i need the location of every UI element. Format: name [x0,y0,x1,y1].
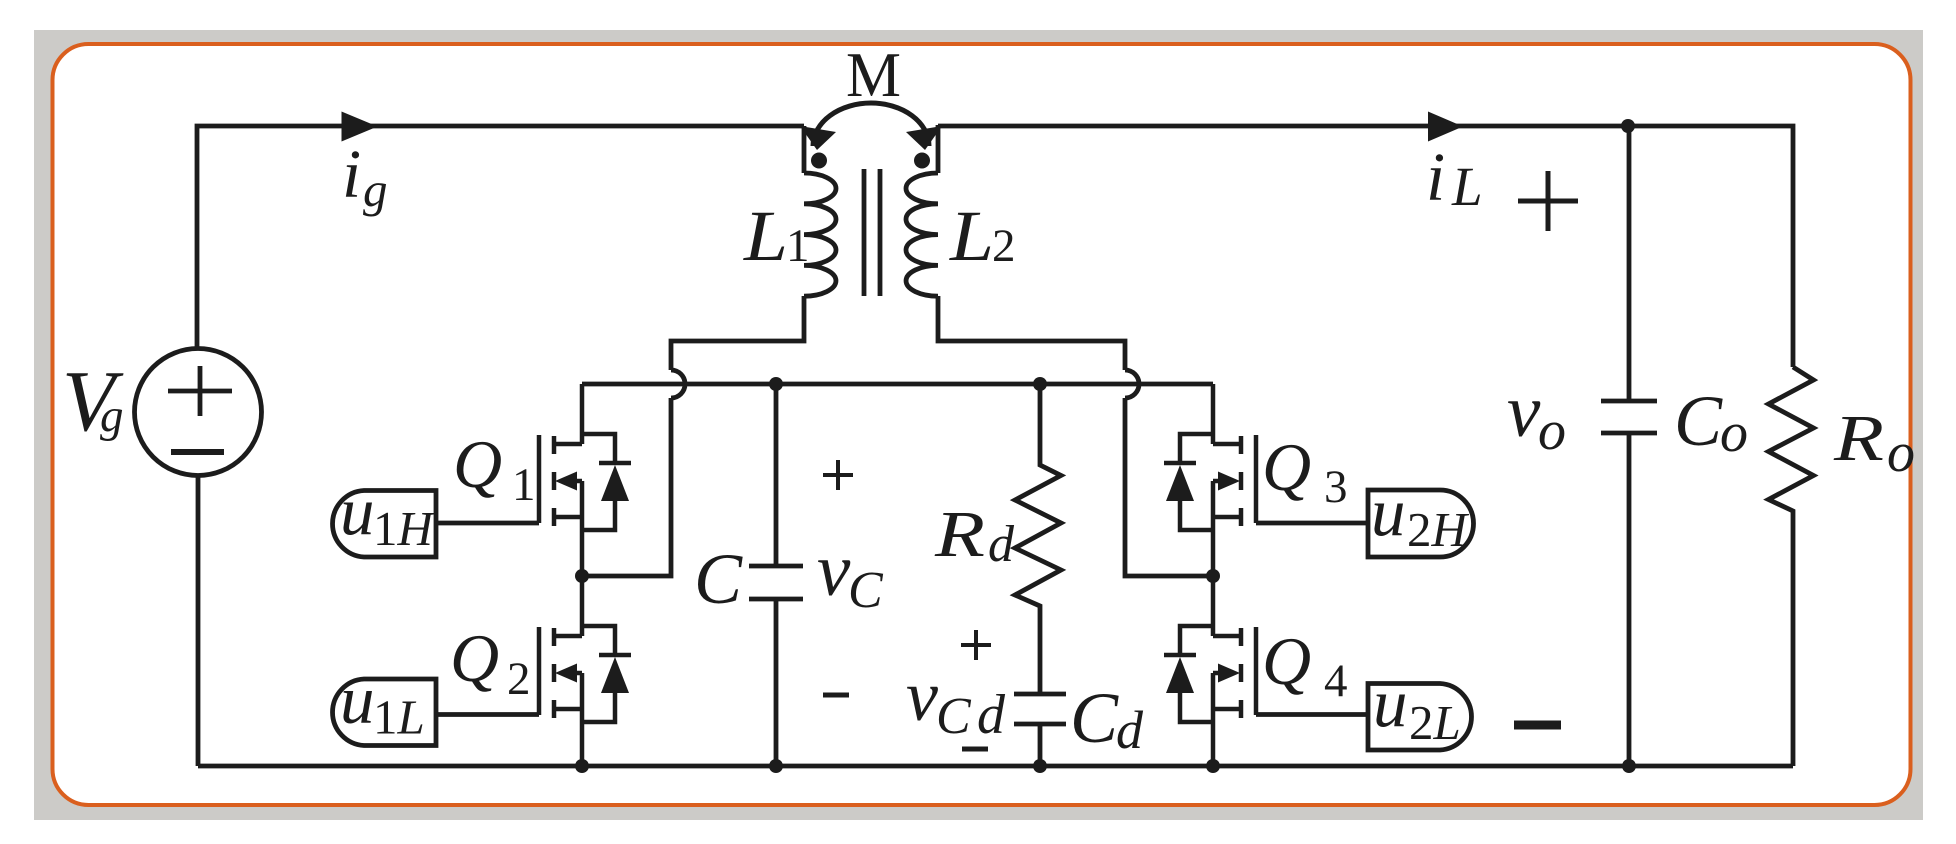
svg-text:1L: 1L [373,690,425,745]
svg-text:3: 3 [1324,461,1348,513]
svg-text:R: R [934,498,985,571]
svg-text:v: v [1507,370,1541,453]
svg-text:C: C [848,562,884,619]
svg-text:o: o [1538,400,1566,462]
svg-text:Q: Q [453,426,502,502]
svg-text:Q: Q [1262,623,1311,699]
svg-text:L: L [743,196,788,276]
svg-text:C: C [1674,381,1723,461]
svg-text:Q: Q [1262,429,1311,505]
svg-text:L: L [949,196,994,276]
svg-text:R: R [1833,402,1884,475]
svg-text:d: d [988,516,1015,573]
svg-text:u: u [340,662,375,738]
svg-text:1H: 1H [373,501,436,556]
svg-text:u: u [1371,474,1406,550]
svg-text:v: v [906,656,938,736]
svg-text:i: i [1426,139,1445,215]
svg-text:o: o [1887,422,1915,484]
svg-text:i: i [342,136,361,212]
svg-text:v: v [817,529,851,612]
svg-text:1: 1 [786,220,810,272]
svg-text:M: M [846,40,901,110]
svg-text:d: d [977,684,1006,746]
svg-text:C: C [936,688,972,745]
svg-text:2: 2 [507,653,531,705]
svg-text:2H: 2H [1407,502,1470,557]
svg-text:1: 1 [512,459,536,511]
svg-text:2L: 2L [1409,695,1461,750]
svg-text:g: g [363,162,388,217]
svg-text:u: u [1373,665,1408,741]
svg-text:C: C [694,539,743,619]
svg-text:d: d [1116,700,1144,760]
svg-text:Q: Q [450,620,499,696]
svg-text:g: g [100,390,124,442]
svg-text:C: C [1070,678,1119,758]
svg-text:o: o [1720,402,1748,464]
svg-text:u: u [340,473,375,549]
svg-text:L: L [1451,156,1483,217]
svg-text:4: 4 [1324,655,1348,707]
svg-text:2: 2 [992,220,1016,272]
